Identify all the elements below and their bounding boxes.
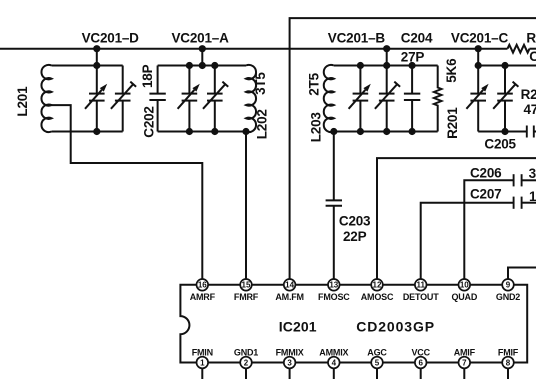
trimmer capacitor VC201-D section 2 — [111, 66, 136, 132]
trimmer capacitor VC201-B section 2 — [375, 66, 400, 132]
node VC201-A top junction left — [186, 62, 193, 69]
svg-text:14: 14 — [285, 281, 294, 290]
svg-text:47: 47 — [524, 102, 536, 117]
node VC201-C top junction right — [501, 62, 508, 69]
svg-text:13: 13 — [329, 281, 338, 290]
variable capacitor VC201-D section 1 — [85, 66, 107, 132]
svg-text:11: 11 — [416, 281, 425, 290]
pin 3 FMMIX — [276, 347, 304, 379]
node VC201-C bottom junction — [501, 128, 508, 135]
svg-text:FMOSC: FMOSC — [318, 292, 350, 302]
node VC201-D top junction — [93, 62, 100, 69]
wire VC201-B feed — [386, 49, 388, 66]
svg-text:3: 3 — [529, 166, 536, 181]
node VC201-B feed junction — [383, 45, 390, 52]
pin 8 FMIF — [498, 347, 519, 379]
svg-text:8: 8 — [506, 358, 511, 367]
resistor R201 — [434, 66, 442, 132]
pin 9 GND2 — [496, 279, 520, 302]
svg-text:10: 10 — [460, 281, 469, 290]
svg-text:C203: C203 — [339, 214, 371, 229]
svg-text:R20: R20 — [521, 87, 536, 102]
pin 2 GND1 — [234, 347, 258, 379]
capacitor C206 — [514, 174, 536, 186]
variable capacitor VC201-A section 1 — [178, 66, 200, 132]
svg-text:AMOSC: AMOSC — [361, 292, 394, 302]
wire AMOSC to right edge — [377, 158, 536, 279]
pin 15 FMRF — [234, 279, 259, 302]
wire QUAD to C206 — [464, 180, 513, 279]
svg-text:FMIF: FMIF — [498, 347, 519, 357]
svg-text:18P: 18P — [140, 64, 155, 88]
wire VC201-D bottom rail — [52, 131, 123, 133]
wire L203 to C203 — [333, 132, 335, 201]
svg-text:AMIF: AMIF — [454, 347, 476, 357]
wire top-right to AM.FM — [290, 18, 536, 279]
svg-text:12: 12 — [373, 281, 382, 290]
wire GND2 to right edge — [508, 268, 536, 280]
pin 16 AMRF — [190, 279, 216, 302]
pin 12 AMOSC — [361, 279, 394, 302]
svg-text:CD2003GP: CD2003GP — [356, 318, 435, 334]
inductor L201 — [41, 65, 51, 132]
pin 11 DETOUT — [403, 279, 439, 302]
capacitor C202 — [149, 66, 165, 132]
svg-text:3T5: 3T5 — [253, 72, 268, 95]
svg-text:VC201–A: VC201–A — [172, 31, 230, 46]
inductor L202 — [246, 65, 256, 132]
svg-text:AMMIX: AMMIX — [319, 347, 348, 357]
svg-text:C2: C2 — [529, 49, 536, 64]
svg-text:VCC: VCC — [411, 347, 430, 357]
svg-text:FMIN: FMIN — [192, 347, 213, 357]
pin 5 AGC — [367, 347, 387, 379]
svg-text:FMMIX: FMMIX — [276, 347, 304, 357]
pin 4 AMMIX — [319, 347, 348, 379]
pin 6 VCC — [411, 347, 430, 379]
wire VC201-C feed — [477, 49, 479, 66]
node VC201-A bottom junction left — [186, 128, 193, 135]
node VC201-A top junction right — [211, 62, 218, 69]
svg-text:GND1: GND1 — [234, 347, 258, 357]
svg-text:VC201–C: VC201–C — [451, 31, 509, 46]
node VC201-A bottom junction right — [211, 128, 218, 135]
svg-text:GND2: GND2 — [496, 292, 520, 302]
svg-text:3: 3 — [287, 358, 292, 367]
node VC201-D feed junction — [93, 45, 100, 52]
svg-text:R2: R2 — [526, 31, 536, 46]
svg-text:1: 1 — [200, 358, 205, 367]
svg-text:16: 16 — [198, 281, 207, 290]
node VC201-B bottom junction b — [383, 128, 390, 135]
svg-text:IC201: IC201 — [279, 318, 317, 334]
node VC201-B top junction mid — [383, 62, 390, 69]
pin 14 AM.FM — [275, 279, 304, 302]
capacitor C204 — [404, 66, 420, 132]
pin 13 FMOSC — [318, 279, 350, 302]
svg-text:2T5: 2T5 — [307, 72, 322, 95]
node VC201-B top junction left — [357, 62, 364, 69]
svg-text:QUAD: QUAD — [451, 292, 477, 302]
wire VC201-D top rail — [52, 65, 123, 67]
pin 10 QUAD — [451, 279, 477, 302]
wire main bus right of R202 — [530, 48, 536, 50]
svg-text:C207: C207 — [470, 186, 501, 201]
variable capacitor VC201-C section 1 — [466, 66, 488, 132]
svg-text:9: 9 — [506, 281, 511, 290]
node VC201-D bottom junction — [93, 128, 100, 135]
svg-text:6: 6 — [418, 358, 423, 367]
svg-text:22P: 22P — [343, 229, 367, 244]
svg-text:C206: C206 — [470, 166, 502, 181]
resistor R202 — [508, 45, 530, 53]
svg-text:4: 4 — [332, 358, 337, 367]
svg-text:15: 15 — [242, 281, 251, 290]
trimmer capacitor VC201-C section 2 — [493, 66, 518, 132]
svg-text:FMRF: FMRF — [234, 292, 259, 302]
svg-text:L202: L202 — [255, 109, 270, 139]
wire C203 to pin 13 — [333, 206, 335, 279]
pin 1 FMIN — [192, 347, 213, 379]
svg-text:L203: L203 — [308, 112, 323, 143]
svg-text:C204: C204 — [401, 31, 433, 46]
svg-text:C202: C202 — [141, 106, 156, 137]
svg-text:VC201–B: VC201–B — [328, 31, 386, 46]
capacitor C203 — [326, 200, 342, 205]
svg-text:DETOUT: DETOUT — [403, 292, 439, 302]
node VC201-B top junction right — [409, 62, 416, 69]
node VC201-A feed junction — [199, 45, 206, 52]
inductor L203 — [324, 65, 334, 132]
wire main bus — [0, 48, 508, 50]
node VC201-B bottom junction a — [357, 128, 364, 135]
svg-text:L201: L201 — [15, 86, 30, 117]
op-amp U1 IC201 body — [180, 285, 527, 363]
wire VC201-C top rail — [478, 65, 536, 67]
trimmer capacitor VC201-A section 2 — [203, 66, 228, 132]
svg-text:VC201–D: VC201–D — [82, 31, 140, 46]
variable capacitor VC201-B section 1 — [349, 66, 371, 132]
svg-text:AM.FM: AM.FM — [275, 292, 304, 302]
capacitor C207 — [514, 197, 536, 209]
node VC201-C top junction left — [475, 62, 482, 69]
svg-text:2: 2 — [244, 358, 249, 367]
wire VC201-B bottom rail — [334, 131, 438, 133]
node VC201-B bottom junction c — [409, 128, 416, 135]
wire VC201-C bottom rail — [478, 131, 527, 133]
svg-text:AGC: AGC — [367, 347, 387, 357]
svg-text:5K6: 5K6 — [444, 58, 459, 83]
wire DETOUT to C207 — [421, 203, 514, 280]
wire VC201-A feed — [201, 49, 203, 66]
svg-text:R201: R201 — [445, 107, 460, 139]
svg-text:7: 7 — [462, 358, 467, 367]
node VC201-C feed junction — [475, 45, 482, 52]
node VC201-A bottom junction L202 — [242, 128, 249, 135]
wire L201 tap — [52, 105, 203, 279]
wire VC201-D feed — [96, 49, 98, 66]
wire VC201-A top rail — [158, 65, 246, 67]
svg-text:C205: C205 — [484, 136, 516, 151]
pin 7 AMIF — [454, 347, 476, 379]
wire VC201-B top rail — [334, 65, 438, 67]
node VC201-A top junction mid — [199, 62, 206, 69]
svg-text:AMRF: AMRF — [190, 292, 216, 302]
wire L202 to pin 15 — [245, 132, 247, 280]
svg-text:1: 1 — [529, 189, 536, 204]
svg-text:27P: 27P — [401, 50, 425, 65]
wire VC201-A bottom rail — [158, 131, 246, 133]
svg-text:5: 5 — [375, 358, 380, 367]
node VC201-B bottom junction L203 — [330, 128, 337, 135]
capacitor C205 — [527, 126, 536, 138]
